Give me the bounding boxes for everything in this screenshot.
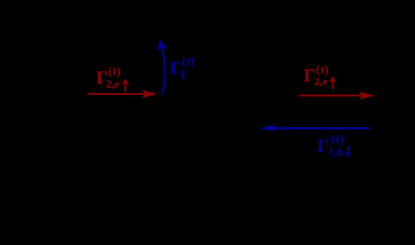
svg-text:1: 1 [180,67,187,81]
svg-text:(t): (t) [316,64,329,76]
svg-text:Γ: Γ [317,136,328,156]
svg-text:(t): (t) [331,133,345,145]
svg-text:(t): (t) [108,66,121,78]
svg-text:2,e: 2,e [314,76,327,88]
svg-text:2,e: 2,e [106,79,119,91]
svg-text:1,h: 1,h [329,147,343,159]
